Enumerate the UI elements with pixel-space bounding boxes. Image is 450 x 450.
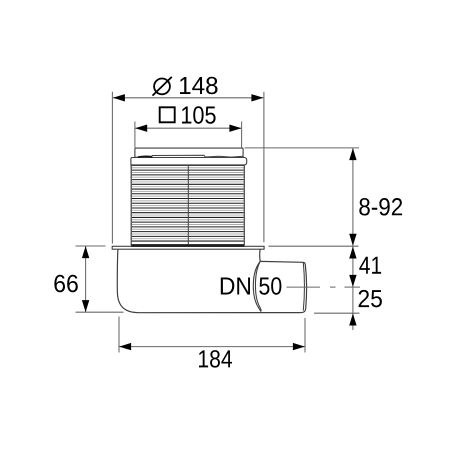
pipe centerline dash-dot	[287, 286, 361, 288]
dimension 66: text	[54, 275, 77, 292]
outlet pipe end inner	[303, 262, 304, 310]
label DN 50: text 50	[259, 277, 281, 294]
dimension 66: top extension line	[76, 245, 106, 247]
grate collar	[131, 158, 247, 165]
dimension 25: bottom outside arrow	[349, 314, 356, 326]
riser rib lines	[131, 165, 246, 241]
dimension 184: right arrow	[293, 343, 305, 350]
body right wall	[259, 249, 262, 261]
dimension O148: left extension line	[111, 92, 113, 244]
dimension SQ105: square symbol	[160, 107, 175, 122]
dimension 41: text	[359, 257, 381, 274]
dimension O148: left arrow	[113, 94, 125, 101]
dimension O148: right arrow	[251, 94, 263, 101]
dimension SQ105: left extension line	[134, 122, 136, 148]
dimension 66: bottom arrow	[82, 300, 89, 312]
dimension 8-92: bottom extension line (flange level)	[269, 245, 359, 247]
dimension 8-92: top arrow	[349, 148, 356, 160]
outlet junction curve inner	[255, 261, 261, 311]
label DN 50: text DN	[221, 278, 250, 295]
dimension 41+25: dimension line	[352, 246, 354, 330]
body outline left+bottom	[117, 249, 301, 312]
dimension SQ105: right arrow	[229, 125, 241, 132]
dimension 184: text	[199, 350, 232, 367]
flange	[112, 246, 264, 249]
outlet pipe end outer	[301, 262, 307, 312]
dimension 184: right extension line	[304, 318, 306, 353]
dimension SQ105: right extension line	[241, 122, 243, 148]
dimension O148: text	[180, 77, 218, 94]
outlet junction curve outer	[253, 261, 260, 311]
dimension 25: bottom extension line	[314, 312, 360, 314]
dimension 8-92: bottom arrow	[349, 234, 356, 246]
riser ribbed section outline	[131, 165, 244, 245]
dimension SQ105: text	[182, 106, 216, 123]
dimension 8-92: top extension line	[245, 147, 360, 149]
dimension SQ105: left arrow	[135, 125, 147, 132]
grate top edge	[135, 148, 243, 157]
dimension 184: dimension line	[119, 346, 305, 348]
dimension O148: right extension line	[263, 92, 265, 242]
dimension 41: bottom arrow	[349, 275, 356, 287]
riser base dark band	[131, 244, 244, 247]
dimension 8-92: dimension line	[352, 148, 354, 246]
grate surface shading stroke	[138, 155, 152, 158]
dimension 25: text	[359, 290, 382, 307]
grate surface line	[135, 155, 243, 157]
dimension 66: bottom extension line	[76, 311, 124, 313]
dimension 66: top arrow	[82, 246, 89, 258]
dimension 184: left extension line	[118, 317, 120, 353]
dimension 184: left arrow	[119, 343, 131, 350]
dimension O148: diameter symbol	[153, 77, 172, 96]
riser center seam	[187, 165, 189, 245]
dimension 41: top arrow	[349, 247, 356, 259]
dimension SQ105: dimension line	[135, 127, 241, 129]
outlet pipe top	[260, 260, 303, 263]
dimension 8-92: text	[359, 198, 402, 215]
dimension 66: dimension line	[85, 246, 87, 312]
dimension O148: dimension line	[113, 97, 263, 99]
